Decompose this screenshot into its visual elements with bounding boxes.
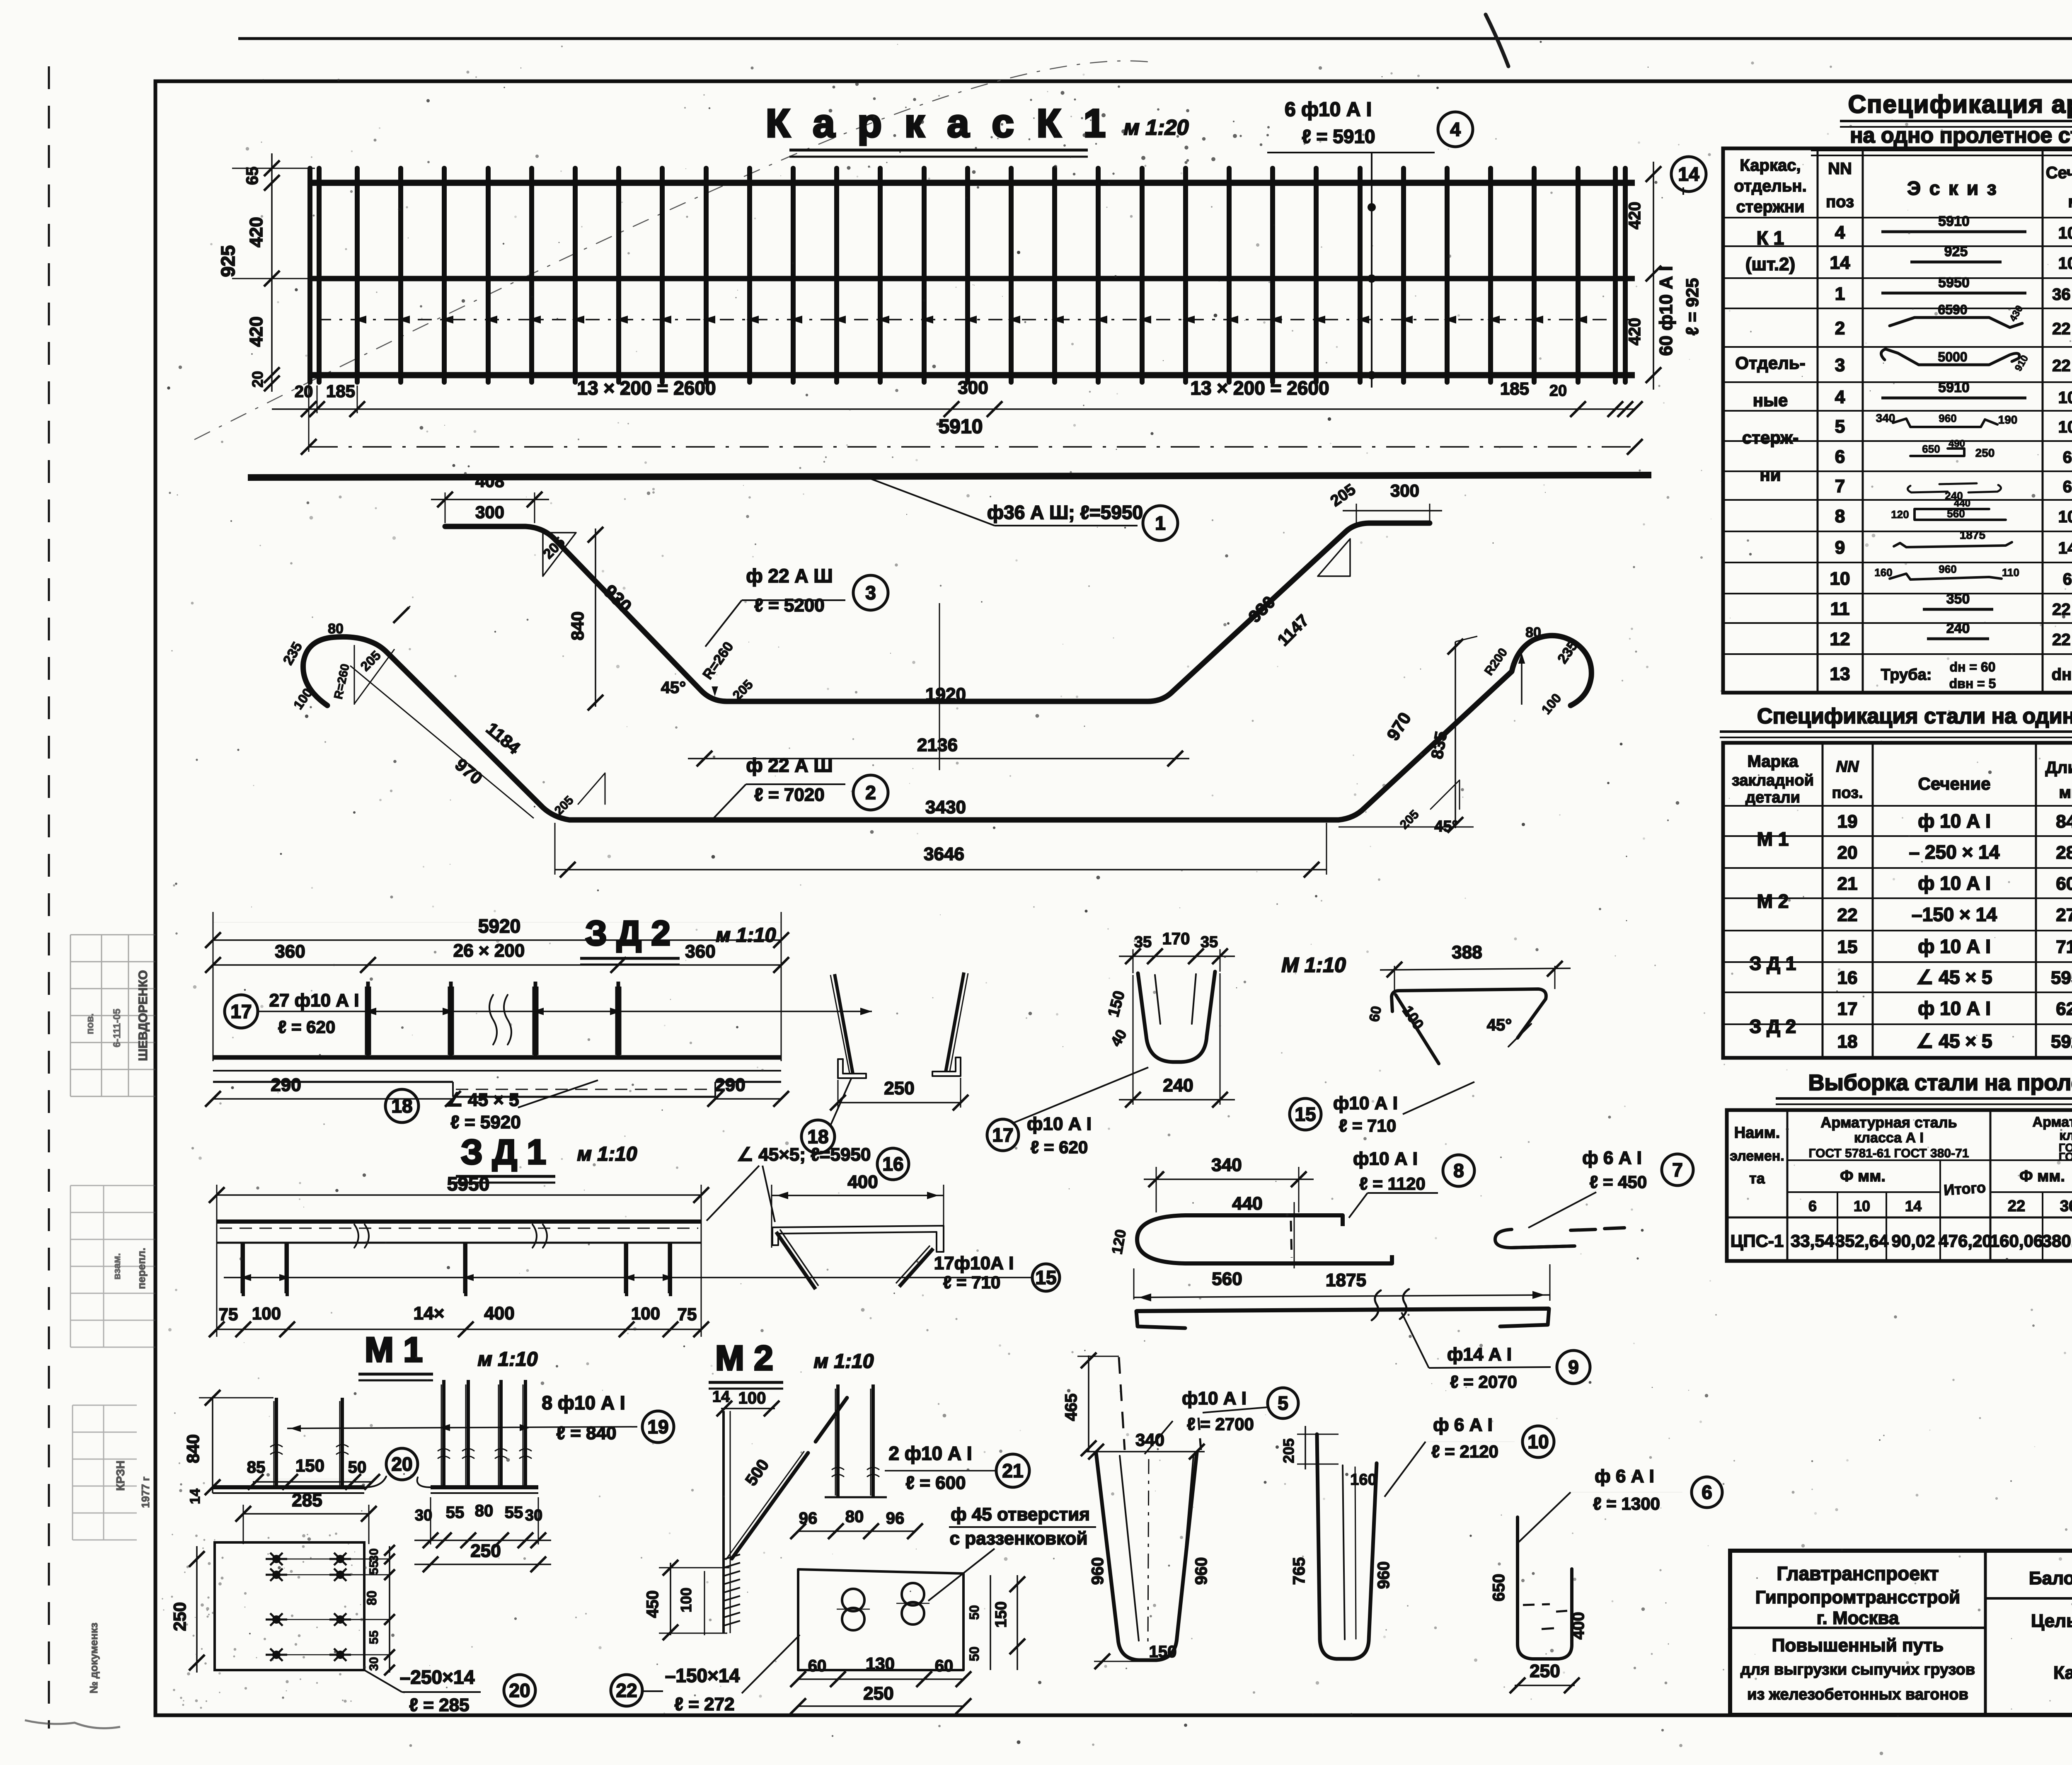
svg-text:5920: 5920 xyxy=(478,915,520,937)
svg-text:ф36 А Ш; ℓ=5950: ф36 А Ш; ℓ=5950 xyxy=(987,502,1143,523)
svg-text:ф 22 А Ш: ф 22 А Ш xyxy=(746,565,833,587)
svg-text:З Д 2: З Д 2 xyxy=(585,914,670,953)
svg-text:ф14 А I: ф14 А I xyxy=(1447,1344,1512,1365)
bar2 left diagonal dim line xyxy=(350,666,534,818)
svg-text:6: 6 xyxy=(1808,1198,1817,1215)
M2 dim 450 100 xyxy=(670,1563,671,1635)
svg-text:160: 160 xyxy=(1350,1471,1376,1489)
svg-text:7: 7 xyxy=(1835,476,1845,497)
svg-text:13 × 200 = 2600: 13 × 200 = 2600 xyxy=(577,377,716,399)
svg-text:560: 560 xyxy=(1212,1269,1242,1289)
svg-text:М 1: М 1 xyxy=(365,1330,423,1369)
left margin stamp block 3 xyxy=(73,1405,137,1540)
svg-text:960: 960 xyxy=(1939,563,1956,575)
ZD1 angle bar elevation xyxy=(217,1219,701,1224)
svg-text:5: 5 xyxy=(1835,417,1845,437)
svg-text:960: 960 xyxy=(1939,412,1956,424)
svg-text:для выгрузки сыпучих грузов: для выгрузки сыпучих грузов xyxy=(1740,1661,1975,1678)
svg-text:8: 8 xyxy=(1835,506,1845,526)
svg-text:350: 350 xyxy=(1946,591,1970,607)
svg-text:Длина: Длина xyxy=(2045,759,2072,777)
svg-text:96: 96 xyxy=(886,1509,905,1527)
pos9 label f14 AI l=2070 xyxy=(1402,1312,1429,1368)
svg-text:ℓ = 2070: ℓ = 2070 xyxy=(1450,1372,1517,1392)
svg-text:352,64: 352,64 xyxy=(1835,1231,1889,1251)
label pos20 -250x14 l=285 xyxy=(364,1670,402,1692)
svg-text:650: 650 xyxy=(1490,1574,1508,1602)
svg-text:476,20: 476,20 xyxy=(1939,1231,1992,1251)
svg-text:20: 20 xyxy=(509,1680,530,1701)
svg-text:100: 100 xyxy=(678,1588,695,1612)
svg-text:35: 35 xyxy=(1134,933,1152,951)
callout circle 16 xyxy=(877,1148,909,1180)
svg-text:400: 400 xyxy=(847,1172,878,1192)
svg-text:ф10 А I: ф10 А I xyxy=(1353,1149,1418,1169)
svg-text:100: 100 xyxy=(631,1304,660,1323)
callout circle 20b xyxy=(504,1675,535,1706)
svg-text:440: 440 xyxy=(1954,498,1970,509)
svg-text:160: 160 xyxy=(1874,566,1892,579)
svg-text:З Д 1: З Д 1 xyxy=(1750,953,1796,974)
ZD2 studs pos17 xyxy=(366,982,370,1057)
svg-text:55: 55 xyxy=(367,1561,381,1574)
svg-text:170: 170 xyxy=(1162,930,1190,948)
svg-text:840: 840 xyxy=(183,1434,203,1463)
svg-text:4: 4 xyxy=(1450,119,1461,140)
svg-text:420: 420 xyxy=(1626,202,1644,230)
svg-text:9: 9 xyxy=(1835,538,1845,558)
svg-text:300: 300 xyxy=(958,378,988,398)
svg-text:250: 250 xyxy=(1530,1661,1560,1681)
svg-text:420: 420 xyxy=(1626,318,1644,346)
svg-text:5950: 5950 xyxy=(1938,275,1970,291)
svg-text:26 × 200: 26 × 200 xyxy=(453,941,525,961)
svg-text:г. Москва: г. Москва xyxy=(1817,1608,1899,1628)
cage K1 vertical bars xyxy=(310,168,1625,382)
ZD1 stud axis line to callout 15 xyxy=(224,1277,1032,1278)
svg-text:м 1:10: м 1:10 xyxy=(478,1348,538,1370)
svg-text:Главтранспроект: Главтранспроект xyxy=(1777,1563,1939,1584)
svg-text:та: та xyxy=(1749,1170,1765,1187)
svg-text:NN: NN xyxy=(1836,758,1859,776)
ZD2 section studs splayed xyxy=(835,974,853,1074)
svg-text:150: 150 xyxy=(295,1456,324,1475)
svg-text:11: 11 xyxy=(1830,599,1850,619)
svg-text:2: 2 xyxy=(1835,318,1845,339)
svg-text:Э с к и з: Э с к и з xyxy=(1907,177,1998,199)
label pos5 f10 AI l=2700 xyxy=(1145,1421,1173,1454)
svg-text:45°: 45° xyxy=(1487,1016,1512,1034)
pos7 short bar with hooks xyxy=(1495,1228,1624,1248)
table2 grid xyxy=(1723,743,2072,1058)
callout circle 18 right xyxy=(801,1120,835,1153)
svg-text:22 А Ш: 22 А Ш xyxy=(2052,357,2072,375)
callout circle 7 xyxy=(1662,1154,1693,1186)
cage total dimension 5910 xyxy=(309,446,1635,448)
svg-text:925: 925 xyxy=(1944,244,1968,259)
svg-text:Труба:: Труба: xyxy=(1881,666,1932,684)
svg-text:м 1:10: м 1:10 xyxy=(716,924,776,946)
svg-text:20: 20 xyxy=(1837,843,1858,863)
svg-text:65: 65 xyxy=(243,167,261,185)
svg-text:М 2: М 2 xyxy=(715,1338,773,1377)
svg-text:30: 30 xyxy=(525,1507,542,1524)
svg-text:стержни: стержни xyxy=(1736,198,1804,216)
svg-text:2136: 2136 xyxy=(917,735,958,755)
svg-text:Отдель-: Отдель- xyxy=(1735,353,1805,373)
M2 plan right dims 50 150 50 xyxy=(990,1575,991,1670)
dim 408/300 top left xyxy=(445,492,446,523)
svg-text:10: 10 xyxy=(1854,1198,1870,1215)
svg-text:22: 22 xyxy=(616,1680,637,1701)
svg-text:5910: 5910 xyxy=(939,416,983,438)
svg-text:160,06: 160,06 xyxy=(1990,1231,2043,1251)
dim 2136 xyxy=(688,758,1189,759)
svg-text:20: 20 xyxy=(391,1453,412,1475)
svg-text:ℓ = 450: ℓ = 450 xyxy=(1590,1172,1647,1192)
svg-text:18: 18 xyxy=(1837,1032,1858,1052)
svg-text:15: 15 xyxy=(1837,937,1858,957)
M1 dim 840 and 14 xyxy=(212,1398,213,1493)
svg-text:450: 450 xyxy=(644,1590,662,1618)
pos10 funnel shape xyxy=(1317,1434,1377,1659)
svg-text:ные: ные xyxy=(1753,390,1788,410)
table3 grid xyxy=(1727,1110,2072,1261)
M2 plan holes f45 xyxy=(842,1589,864,1611)
label pos2 f22 AIII l=7020 xyxy=(712,784,746,820)
svg-text:14 А I: 14 А I xyxy=(2058,539,2072,558)
svg-text:30: 30 xyxy=(367,1657,381,1670)
M1 elevation left studs xyxy=(275,1398,278,1487)
svg-text:10: 10 xyxy=(1527,1431,1549,1452)
svg-text:элемен.: элемен. xyxy=(1730,1148,1784,1164)
dim 840 vertical xyxy=(595,529,596,707)
svg-text:– 250 × 14: – 250 × 14 xyxy=(1909,841,2000,863)
svg-text:Выборка стали на пролетное: Выборка стали на пролетное строение xyxy=(1808,1070,2072,1095)
svg-text:35: 35 xyxy=(1201,933,1218,951)
label pos21 2 f10 AI l=600 xyxy=(885,1470,995,1472)
left margin stamp block 2 xyxy=(70,1186,155,1347)
svg-text:22 А Ш: 22 А Ш xyxy=(2052,320,2072,338)
svg-text:400: 400 xyxy=(1569,1612,1588,1640)
svg-text:250: 250 xyxy=(1975,446,1995,459)
svg-text:250: 250 xyxy=(470,1541,501,1561)
svg-text:ℓ = 620: ℓ = 620 xyxy=(1031,1137,1088,1157)
svg-text:50: 50 xyxy=(967,1646,982,1661)
vertical centreline xyxy=(939,603,940,770)
svg-text:ф 10 А I: ф 10 А I xyxy=(1918,936,1991,957)
svg-text:ШЕВДОРЕНКО: ШЕВДОРЕНКО xyxy=(136,970,150,1061)
svg-text:класса А I: класса А I xyxy=(1854,1130,1924,1146)
svg-text:340: 340 xyxy=(1211,1155,1242,1175)
svg-text:6590: 6590 xyxy=(1938,302,1967,317)
svg-text:420: 420 xyxy=(246,316,266,347)
M1 plan dim 285 xyxy=(243,1513,369,1515)
left margin stamp block 1 xyxy=(70,935,155,1096)
svg-text:4: 4 xyxy=(1835,387,1845,407)
callout circle 5 xyxy=(1268,1388,1298,1418)
svg-text:ℓ = 840: ℓ = 840 xyxy=(556,1423,616,1443)
svg-text:Повышенный путь: Повышенный путь xyxy=(1772,1635,1944,1656)
dim 1920 xyxy=(717,704,1160,705)
svg-text:ф 10 А I: ф 10 А I xyxy=(1918,998,1991,1019)
M2 bottom dims 60 130 60 xyxy=(798,1678,963,1680)
sketch pos7 xyxy=(1907,483,2001,492)
svg-text:290: 290 xyxy=(271,1075,301,1095)
M1 base plate elevation xyxy=(213,1485,364,1489)
svg-text:КРЗН: КРЗН xyxy=(114,1460,127,1491)
svg-text:185: 185 xyxy=(326,381,355,401)
svg-text:650: 650 xyxy=(1922,443,1940,455)
callout circle 22 xyxy=(611,1675,642,1706)
svg-text:∠ 45×5; ℓ=5950: ∠ 45×5; ℓ=5950 xyxy=(737,1144,871,1165)
svg-text:120: 120 xyxy=(1891,508,1909,521)
M1 plan dim 250 left xyxy=(196,1546,198,1673)
pos7 leader xyxy=(1528,1192,1596,1228)
label pos1 xyxy=(871,479,995,526)
svg-text:отдельн.: отдельн. xyxy=(1734,177,1806,195)
svg-text:1875: 1875 xyxy=(1960,529,1985,541)
svg-text:из железобетонных вагонов: из железобетонных вагонов xyxy=(1747,1686,1968,1703)
svg-text:14: 14 xyxy=(187,1489,203,1504)
svg-text:710: 710 xyxy=(2056,937,2072,957)
svg-text:К а р к а с К 1: К а р к а с К 1 xyxy=(766,101,1111,145)
svg-text:поз.: поз. xyxy=(1832,784,1863,802)
svg-text:Гипропромтрансстрой: Гипропромтрансстрой xyxy=(1755,1587,1960,1607)
sketch pos6 xyxy=(1910,449,1964,456)
svg-text:ℓ = 2120: ℓ = 2120 xyxy=(1431,1442,1498,1461)
svg-text:6 А I: 6 А I xyxy=(2063,449,2072,467)
svg-text:ℓ = 5920: ℓ = 5920 xyxy=(450,1112,521,1132)
svg-text:3: 3 xyxy=(1835,355,1845,376)
svg-text:1920: 1920 xyxy=(925,684,966,705)
svg-text:8: 8 xyxy=(1453,1160,1464,1181)
svg-text:3646: 3646 xyxy=(924,844,964,864)
ZD2 dim 5920 xyxy=(213,922,781,923)
svg-text:150: 150 xyxy=(992,1601,1010,1627)
svg-text:2 ф10 А I: 2 ф10 А I xyxy=(888,1443,972,1464)
cage K1 top chord xyxy=(309,180,1635,186)
pos5 dim 340 xyxy=(1086,1451,1205,1452)
svg-text:110: 110 xyxy=(2002,566,2019,579)
svg-text:ℓ = 2700: ℓ = 2700 xyxy=(1187,1414,1254,1434)
svg-text:13 × 200 = 2600: 13 × 200 = 2600 xyxy=(1190,377,1329,399)
title block frame xyxy=(1730,1551,2072,1715)
svg-text:ГОСТ 5058-65: ГОСТ 5058-65 xyxy=(2059,1150,2072,1163)
svg-text:Каркасы, закладные дета-: Каркасы, закладные дета- xyxy=(2053,1663,2072,1683)
svg-text:80: 80 xyxy=(328,621,344,637)
svg-text:Спецификация арматуры: Спецификация арматуры xyxy=(1848,90,2072,118)
svg-text:∠ 45 × 5: ∠ 45 × 5 xyxy=(1916,1030,1992,1052)
svg-text:205: 205 xyxy=(1280,1438,1297,1463)
stirrup pos17 U shape xyxy=(1138,972,1215,1062)
svg-text:Марка: Марка xyxy=(1748,752,1799,771)
callout circle 20 mid plate xyxy=(386,1448,418,1480)
ZD1 section studs xyxy=(776,1232,816,1289)
M2 dims 96 80 96 xyxy=(798,1530,915,1532)
bottom left paper noise xyxy=(25,1720,120,1728)
svg-text:960: 960 xyxy=(1089,1557,1107,1585)
svg-text:380.32: 380.32 xyxy=(2042,1231,2072,1251)
svg-text:перепл.: перепл. xyxy=(135,1248,148,1289)
svg-text:7: 7 xyxy=(1672,1159,1683,1181)
svg-text:Цельноперевозимая пролетное: Цельноперевозимая пролетное xyxy=(2031,1611,2072,1631)
pen stroke artifact top middle xyxy=(1486,15,1508,66)
svg-text:ни: ни xyxy=(1760,465,1781,485)
svg-text:17ф10А I: 17ф10А I xyxy=(934,1253,1014,1273)
pos5 funnel shape xyxy=(1096,1453,1197,1660)
svg-text:925: 925 xyxy=(217,245,239,277)
M1 right plan dims 30 55 80 55 30 xyxy=(430,1497,431,1544)
svg-text:60: 60 xyxy=(808,1657,827,1675)
callout circle 14 xyxy=(1671,157,1706,192)
pos9 dims 560 1875 xyxy=(1133,1268,1135,1300)
svg-text:16: 16 xyxy=(1837,968,1858,988)
svg-text:3430: 3430 xyxy=(925,797,966,817)
svg-text:465: 465 xyxy=(1062,1394,1080,1421)
svg-text:5: 5 xyxy=(1278,1392,1288,1414)
svg-text:36: 36 xyxy=(2060,1198,2072,1215)
svg-text:19: 19 xyxy=(1837,812,1858,832)
svg-text:ℓ = 710: ℓ = 710 xyxy=(943,1273,1000,1292)
svg-text:мм: мм xyxy=(2059,783,2072,802)
label pos10 f6 AI l=2120 xyxy=(1385,1442,1426,1497)
svg-text:10 А I: 10 А I xyxy=(2058,418,2072,436)
M1 plan plate square xyxy=(215,1542,364,1670)
svg-text:20: 20 xyxy=(1549,382,1567,400)
svg-text:М 2: М 2 xyxy=(1757,890,1789,912)
svg-text:8 ф10 А I: 8 ф10 А I xyxy=(542,1392,625,1413)
svg-text:6 А I: 6 А I xyxy=(2063,478,2072,496)
bar pos1 f36 AIII straight xyxy=(248,475,1651,478)
ZD1 break marks xyxy=(354,1224,369,1248)
stirrup direction arrows xyxy=(354,315,366,323)
svg-text:17: 17 xyxy=(992,1124,1013,1146)
svg-text:пов.: пов. xyxy=(85,1013,96,1035)
svg-text:30: 30 xyxy=(367,1548,381,1562)
ZD2 dims 360 26x200 360 xyxy=(213,964,781,966)
svg-text:dвн = 5: dвн = 5 xyxy=(1949,676,1996,691)
svg-text:340: 340 xyxy=(1876,412,1895,424)
svg-text:400: 400 xyxy=(484,1303,514,1324)
M2 elevation plate and diagonal stud xyxy=(722,1411,725,1633)
svg-text:№ докуменкз: № докуменкз xyxy=(87,1622,100,1693)
svg-text:ℓ = 600: ℓ = 600 xyxy=(905,1473,966,1493)
svg-text:21: 21 xyxy=(1002,1460,1023,1481)
svg-text:560: 560 xyxy=(1947,507,1965,520)
bar2 bottom extension line to 835 dim xyxy=(1339,827,1474,828)
svg-text:10 А I: 10 А I xyxy=(2058,255,2072,273)
svg-text:80: 80 xyxy=(364,1590,379,1605)
svg-text:75: 75 xyxy=(678,1304,697,1324)
callout circle 17 left with label xyxy=(225,995,258,1028)
svg-text:ℓ = 925: ℓ = 925 xyxy=(1682,278,1702,335)
svg-text:–150×14: –150×14 xyxy=(665,1665,740,1686)
svg-text:22 А Ш: 22 А Ш xyxy=(2052,631,2072,649)
svg-text:17: 17 xyxy=(230,1001,252,1022)
svg-text:96: 96 xyxy=(799,1509,818,1527)
svg-text:ℓ = 1300: ℓ = 1300 xyxy=(1593,1494,1660,1513)
svg-text:600: 600 xyxy=(2056,874,2072,894)
ZD2 angle bar elevation xyxy=(213,1055,781,1060)
svg-text:Сечение: Сечение xyxy=(1918,774,1991,793)
svg-text:с раззенковкой: с раззенковкой xyxy=(950,1528,1088,1549)
svg-text:440: 440 xyxy=(1232,1193,1262,1214)
svg-text:45°: 45° xyxy=(661,679,686,697)
svg-text:17: 17 xyxy=(1837,999,1858,1019)
cage bottom dimension line 13x200 xyxy=(272,408,1635,410)
svg-text:22: 22 xyxy=(1837,905,1858,925)
M1 plan right rotated dims xyxy=(389,1546,390,1673)
svg-text:5950: 5950 xyxy=(2051,968,2072,988)
svg-text:10 А I: 10 А I xyxy=(2058,508,2072,526)
label pos6 f6 AI l=1300 xyxy=(1519,1492,1571,1542)
svg-text:6: 6 xyxy=(1702,1481,1712,1503)
cage K1 bottom chord xyxy=(309,372,1635,378)
M1 elevation right studs pos19 xyxy=(442,1380,445,1487)
svg-text:Итого: Итого xyxy=(1943,1179,1986,1199)
bar pos2 bent 22 AIII long xyxy=(303,635,1591,820)
svg-text:250: 250 xyxy=(863,1683,893,1704)
pos5 dim 465 xyxy=(1088,1355,1089,1451)
ZD2 dims 290 xyxy=(213,1098,453,1100)
svg-text:ф10 А I: ф10 А I xyxy=(1333,1093,1398,1113)
svg-text:272: 272 xyxy=(2056,905,2072,925)
svg-text:27 ф10 А I: 27 ф10 А I xyxy=(269,990,359,1011)
pos5 dashed upper extension xyxy=(1119,1357,1125,1450)
svg-text:–150 × 14: –150 × 14 xyxy=(1912,904,1997,925)
svg-text:240: 240 xyxy=(1946,621,1970,636)
svg-text:36 А Ш: 36 А Ш xyxy=(2052,286,2072,304)
svg-text:14: 14 xyxy=(1678,163,1699,185)
svg-text:19: 19 xyxy=(647,1416,668,1438)
leader to circle 17 right xyxy=(1013,1067,1148,1123)
svg-text:620: 620 xyxy=(2056,999,2072,1019)
svg-text:408: 408 xyxy=(475,471,504,491)
pos9 break marks xyxy=(1372,1290,1381,1320)
svg-text:3: 3 xyxy=(865,582,876,604)
callout circle 18 left xyxy=(385,1089,419,1123)
M2 weld hatch xyxy=(724,1554,740,1559)
svg-text:З Д 1: З Д 1 xyxy=(461,1132,546,1171)
svg-text:290: 290 xyxy=(715,1075,745,1095)
svg-text:ℓ = 7020: ℓ = 7020 xyxy=(754,785,825,805)
svg-text:90,02: 90,02 xyxy=(1891,1231,1935,1251)
pos9 bar with end hooks xyxy=(1136,1309,1549,1311)
sketch pos5 xyxy=(1893,419,1997,427)
table1 grid xyxy=(1723,148,2072,693)
left margin dashed line xyxy=(48,66,50,1729)
svg-text:150: 150 xyxy=(1149,1643,1177,1661)
svg-text:14: 14 xyxy=(1905,1198,1922,1215)
svg-text:1: 1 xyxy=(1155,512,1166,534)
svg-text:ф10 А I: ф10 А I xyxy=(1027,1114,1092,1134)
svg-text:Спецификация стали на: Спецификация стали на один закладной эле… xyxy=(1757,704,2072,728)
svg-text:50: 50 xyxy=(348,1458,367,1476)
svg-text:1: 1 xyxy=(1835,284,1845,304)
svg-text:1977 г: 1977 г xyxy=(139,1476,152,1508)
callout circle 9 xyxy=(1557,1350,1590,1384)
svg-text:12: 12 xyxy=(1830,629,1850,650)
M1 dim 250 under studs xyxy=(414,1564,551,1565)
label pos15 f10 AI l=710 xyxy=(1403,1082,1474,1114)
svg-text:ф 22 А Ш: ф 22 А Ш xyxy=(746,754,833,776)
svg-text:ф 6 А I: ф 6 А I xyxy=(1582,1148,1642,1168)
svg-text:4: 4 xyxy=(1835,223,1845,243)
svg-text:NN: NN xyxy=(1828,160,1852,178)
sketch pos10 xyxy=(1890,574,2002,579)
svg-text:20: 20 xyxy=(249,371,266,388)
